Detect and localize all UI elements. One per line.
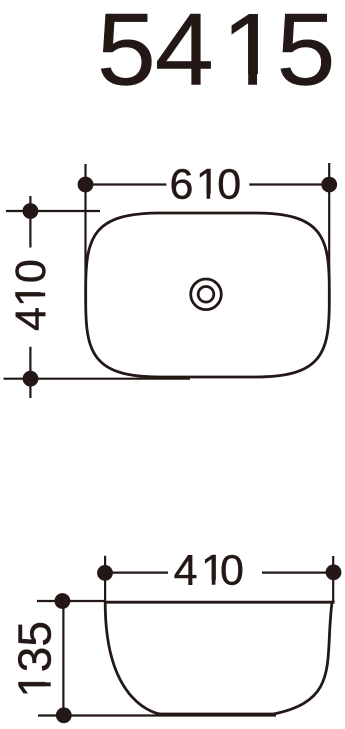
dimension line 610 left segment [86, 183, 167, 185]
svg-text:0: 0 [217, 160, 241, 208]
svg-text:5: 5 [277, 0, 336, 107]
svg-text:410: 410 [7, 259, 55, 331]
basin side profile outline [105, 602, 334, 714]
svg-text:1: 1 [222, 0, 281, 107]
dimension dot side 410 right [326, 564, 342, 580]
extension line right of 610 dimension [328, 163, 330, 297]
dimension text 410 (rotated, top view) [7, 259, 55, 331]
dimension line 610 right segment [249, 183, 329, 185]
svg-text:0: 0 [220, 547, 244, 595]
dimension dot 610 left [78, 177, 94, 193]
extension line bottom of 135 dimension [38, 714, 276, 716]
svg-text:1: 1 [196, 160, 220, 208]
dimension line 410 lower segment [29, 347, 31, 398]
mask foot of title digit 1 [227, 74, 248, 88]
dimension dot 610 right [321, 177, 337, 193]
dimension line side 410 left segment [105, 571, 168, 573]
svg-text:6: 6 [169, 160, 193, 208]
mask foot of digit 1 in 135 [46, 686, 52, 695]
extension line bottom of 410 dimension [4, 378, 191, 380]
mask foot of digit 1 in 610 [198, 194, 206, 200]
drain outer circle [191, 279, 222, 310]
mask foot of digit 1 in 410 [41, 296, 47, 304]
dimension line side 410 right segment [262, 571, 334, 573]
extension line top of 135 dimension [37, 600, 105, 602]
dimension text 135 (rotated, side view) [8, 621, 60, 698]
drain inner circle [198, 287, 214, 303]
title model number 5415 [97, 0, 336, 107]
mask foot of digit 1 in side 410 [203, 580, 211, 586]
extension line left of side 410 dimension [104, 556, 106, 603]
dimension dot side 410 left [97, 565, 113, 581]
dimension dot 410 top [23, 203, 39, 219]
dimension line 410 upper segment [29, 196, 31, 248]
dimension dot 135 top [55, 593, 71, 609]
extension line top of 410 dimension [6, 210, 100, 212]
svg-text:135: 135 [8, 621, 60, 698]
dimension dot 410 bottom [23, 371, 39, 387]
extension line right of side 410 dimension [332, 556, 334, 603]
svg-text:4: 4 [174, 547, 198, 595]
svg-text:4: 4 [155, 0, 214, 107]
svg-text:5: 5 [97, 0, 156, 107]
extension line left of 610 dimension [84, 164, 86, 304]
dimension line 135 [62, 601, 64, 715]
basin outline (top view rounded rectangle) [86, 213, 330, 377]
dimension dot 135 bottom [56, 707, 72, 723]
